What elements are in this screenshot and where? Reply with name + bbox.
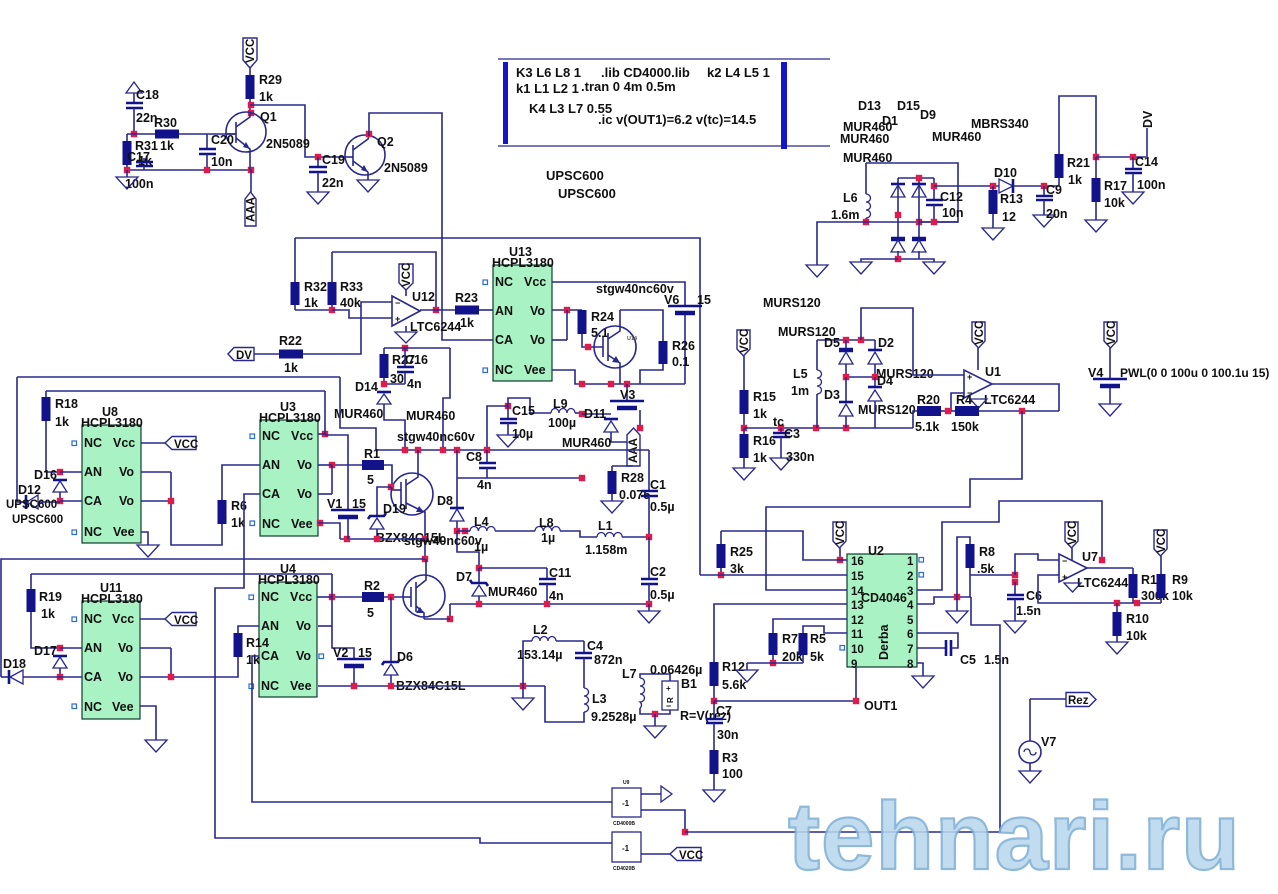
svg-text:stgw40nc60v: stgw40nc60v <box>397 430 475 444</box>
svg-text:AN: AN <box>495 304 513 318</box>
labels MUR460 cluster <box>843 120 892 134</box>
svg-text:1.158m: 1.158m <box>585 543 627 557</box>
capacitor C5 <box>917 633 1009 667</box>
resistor R22 <box>279 334 303 375</box>
svg-text:R13: R13 <box>1000 192 1023 206</box>
svg-text:Vee: Vee <box>112 700 134 714</box>
svg-text:D6: D6 <box>397 650 413 664</box>
svg-text:R24: R24 <box>591 310 614 324</box>
svg-text:VCC: VCC <box>679 850 703 862</box>
svg-text:MBRS340: MBRS340 <box>971 117 1029 131</box>
svg-text:10k: 10k <box>1172 589 1193 603</box>
resistor R27 <box>380 348 415 384</box>
resistor R16 <box>733 425 776 480</box>
svg-text:D16: D16 <box>34 468 57 482</box>
svg-text:MUR460: MUR460 <box>488 585 537 599</box>
svg-text:9.2528µ: 9.2528µ <box>591 710 636 724</box>
wire M1 emitter to midpoint <box>422 512 428 562</box>
capacitor C9 <box>1033 183 1068 227</box>
node M2 gate / D6 <box>388 594 394 600</box>
wire C6 node to U7 -in <box>1015 554 1059 575</box>
svg-text:R19: R19 <box>39 590 62 604</box>
wire U8 Vee to ground <box>137 532 159 557</box>
svg-text:D3: D3 <box>824 388 840 402</box>
diode D11 <box>562 407 627 450</box>
mid rail D4 label <box>843 374 893 388</box>
svg-text:1m: 1m <box>791 384 809 398</box>
label UPSC600 (2) <box>558 186 616 201</box>
svg-text:13: 13 <box>851 600 864 612</box>
MOSFET M2 <box>403 559 445 619</box>
svg-text:L9: L9 <box>553 397 568 411</box>
diode D15 (bridge UR) <box>897 99 926 197</box>
net flag VCC (U8) <box>141 437 198 452</box>
svg-text:HCPL3180: HCPL3180 <box>81 416 143 430</box>
svg-text:3k: 3k <box>730 562 744 576</box>
svg-text:D9: D9 <box>920 108 936 122</box>
svg-text:R9: R9 <box>1172 573 1188 587</box>
bridge rails <box>895 175 934 262</box>
resistor R32 <box>291 238 327 310</box>
svg-text:R20: R20 <box>917 393 940 407</box>
net flag AAA (output node) <box>627 428 640 466</box>
svg-text:NC: NC <box>495 275 513 289</box>
wire U11 Vee to ground <box>140 706 167 752</box>
resistor R9 <box>1157 573 1193 603</box>
svg-text:5.1k: 5.1k <box>915 420 939 434</box>
opto U4 HCPL3180 <box>249 562 324 697</box>
svg-text:8: 8 <box>907 659 914 671</box>
svg-text:R4: R4 <box>956 393 972 407</box>
svg-text:3: 3 <box>907 586 913 598</box>
svg-text:D19: D19 <box>383 502 406 516</box>
svg-text:R22: R22 <box>279 334 302 348</box>
capacitor C7 <box>706 701 739 750</box>
R7/R5 ground node <box>736 660 803 682</box>
svg-text:Vee: Vee <box>113 525 135 539</box>
svg-text:1k: 1k <box>55 415 69 429</box>
svg-text:AN: AN <box>84 465 102 479</box>
svg-text:C15: C15 <box>512 404 535 418</box>
svg-text:C2: C2 <box>650 565 666 579</box>
svg-text:Vcc: Vcc <box>113 436 135 450</box>
svg-text:1k: 1k <box>41 607 55 621</box>
svg-text:U12: U12 <box>412 290 435 304</box>
svg-text:R25: R25 <box>730 545 753 559</box>
diode D14 <box>334 380 405 450</box>
svg-text:NC: NC <box>84 525 102 539</box>
svg-text:−: − <box>395 298 400 308</box>
capacitor C11 <box>539 566 571 604</box>
svg-text:R26: R26 <box>672 339 695 353</box>
svg-text:LTC6244: LTC6244 <box>1077 576 1128 590</box>
resistor R20 <box>913 393 941 434</box>
svg-text:tc: tc <box>773 415 784 429</box>
svg-text:0.1: 0.1 <box>672 355 689 369</box>
svg-text:C16: C16 <box>405 353 428 367</box>
battery V3 <box>610 384 644 428</box>
inductor L9 <box>548 397 582 430</box>
diode D8 <box>406 409 464 531</box>
svg-text:D8: D8 <box>437 494 453 508</box>
svg-text:1k: 1k <box>246 653 260 667</box>
capacitor C14 <box>1122 155 1166 204</box>
svg-text:R32: R32 <box>304 280 327 294</box>
svg-text:R18: R18 <box>55 397 78 411</box>
svg-text:1k: 1k <box>231 516 245 530</box>
svg-text:-1: -1 <box>622 844 630 853</box>
resistor R17 <box>1085 154 1127 232</box>
resistor R18 <box>42 391 78 472</box>
ground under C19 <box>307 192 329 204</box>
wire U4 CA to logic gate1 <box>252 656 612 802</box>
capacitor C1 <box>641 450 675 536</box>
battery V1 <box>327 497 366 539</box>
svg-text:stgw40nc60v: stgw40nc60v <box>596 282 674 296</box>
Vee bus y=686 <box>318 683 545 689</box>
svg-text:Vo: Vo <box>118 641 133 655</box>
emitter return bus V1 y=539 <box>340 536 425 542</box>
HV rail y=391 <box>46 390 325 392</box>
svg-text:D13: D13 <box>858 99 881 113</box>
ground at C2 <box>638 604 660 623</box>
wire L6 bottom to bridge <box>866 219 922 225</box>
wire U7 output node <box>1087 557 1133 568</box>
diode D18 <box>1 657 82 684</box>
svg-text:D5: D5 <box>824 336 840 350</box>
transistor Q1 <box>226 110 310 152</box>
svg-text:+: + <box>666 684 671 693</box>
wire U13 Vcc to V6+ <box>552 282 685 306</box>
svg-text:Vo: Vo <box>530 304 545 318</box>
svg-text:AN: AN <box>84 641 102 655</box>
svg-text:4n: 4n <box>407 377 422 391</box>
diode D13 (bridge UL) <box>858 99 905 197</box>
opto U3 HCPL3180 <box>250 400 321 536</box>
node D7/C11 <box>476 565 547 571</box>
svg-text:Q2: Q2 <box>377 135 394 149</box>
svg-text:100n: 100n <box>125 177 154 191</box>
op-amp U1 <box>964 365 1035 407</box>
resistor R26 <box>640 339 695 384</box>
svg-text:−: − <box>1062 556 1067 566</box>
svg-text:100: 100 <box>722 767 743 781</box>
capacitor C17 <box>125 150 154 191</box>
svg-text:1.5n: 1.5n <box>984 653 1009 667</box>
svg-text:5k: 5k <box>810 650 824 664</box>
svg-text:MUR460: MUR460 <box>406 409 455 423</box>
svg-text:AAA: AAA <box>246 197 258 222</box>
svg-text:14: 14 <box>851 586 864 598</box>
net flag VCC above U1 <box>972 321 986 370</box>
svg-text:R16: R16 <box>753 434 776 448</box>
inductor L6 <box>831 163 871 222</box>
svg-text:NC: NC <box>84 612 102 626</box>
svg-text:L4: L4 <box>474 515 489 529</box>
svg-text:MUR460: MUR460 <box>562 436 611 450</box>
inductor L3 <box>545 686 636 724</box>
capacitor C6 <box>1004 582 1042 633</box>
svg-text:CD4000B: CD4000B <box>613 821 635 827</box>
diode D7 (zener) <box>456 568 537 604</box>
svg-text:.tran 0 4m 0.5m: .tran 0 4m 0.5m <box>581 79 676 94</box>
resistor R25 <box>717 531 841 576</box>
node V3/AAA <box>637 425 643 431</box>
net flag VCC (U2 pin16) <box>833 521 847 563</box>
opto U8 HCPL3180 <box>72 405 143 543</box>
resistor R19 <box>27 574 62 648</box>
node junction R29/Q1 <box>248 102 254 116</box>
wire Q2 collector to U13 CA <box>366 113 493 340</box>
ground bridge left <box>850 259 898 274</box>
svg-text:1k: 1k <box>284 361 298 375</box>
resistor R3 <box>703 750 743 802</box>
svg-text:D2: D2 <box>878 336 894 350</box>
capacitor C15 <box>497 398 551 447</box>
capacitor C12 <box>919 178 964 225</box>
drain bus y=450 <box>376 447 649 453</box>
svg-text:11: 11 <box>851 629 864 641</box>
svg-text:UPSC600: UPSC600 <box>6 499 57 511</box>
svg-text:15: 15 <box>358 646 372 660</box>
svg-text:MUR460: MUR460 <box>932 130 981 144</box>
svg-text:1k: 1k <box>460 316 474 330</box>
label MBRS340 <box>971 117 1029 131</box>
svg-text:VCC: VCC <box>174 439 198 451</box>
svg-text:U14: U14 <box>627 336 638 342</box>
svg-text:0.06426µ: 0.06426µ <box>650 663 702 677</box>
svg-text:150k: 150k <box>951 420 979 434</box>
opto U11 HCPL3180 <box>72 581 143 719</box>
svg-text:k1 L1 L2 1: k1 L1 L2 1 <box>516 81 579 96</box>
ground under Q2 <box>357 172 379 192</box>
svg-text:Vo: Vo <box>118 670 133 684</box>
svg-text:D7: D7 <box>456 570 472 584</box>
bsource B1 <box>650 663 702 711</box>
svg-text:+: + <box>1062 572 1067 582</box>
svg-text:NC: NC <box>262 429 280 443</box>
svg-text:D15: D15 <box>897 99 920 113</box>
svg-text:CA: CA <box>261 649 279 663</box>
label UPSC600 x2 <box>6 499 57 511</box>
wire U3 CA to logic <box>215 494 612 843</box>
wire U3 Vcc node <box>318 391 348 510</box>
diode D3 <box>824 377 853 428</box>
svg-text:C19: C19 <box>322 153 345 167</box>
svg-text:Vcc: Vcc <box>112 612 134 626</box>
svg-text:+: + <box>967 372 972 382</box>
wire U4 Vcc node <box>317 574 354 659</box>
wire M1 collector to bus <box>417 450 419 473</box>
svg-text:5: 5 <box>367 606 374 620</box>
wire L6 bottom left / ground <box>806 219 869 277</box>
svg-text:LTC6244: LTC6244 <box>984 393 1035 407</box>
resistor R31 <box>123 134 158 170</box>
node M1 gate <box>388 484 394 490</box>
battery V2 <box>333 646 372 686</box>
resistor R11 <box>1129 568 1169 603</box>
ground below U7 <box>1064 583 1081 592</box>
svg-text:D14: D14 <box>355 380 378 394</box>
svg-text:NC: NC <box>495 363 513 377</box>
svg-text:.ic v(OUT1)=6.2 v(tc)=14.5: .ic v(OUT1)=6.2 v(tc)=14.5 <box>598 112 756 127</box>
svg-text:R7: R7 <box>782 632 798 646</box>
svg-text:DV: DV <box>1141 110 1155 128</box>
svg-text:AN: AN <box>262 458 280 472</box>
HV rail y=377 <box>17 377 340 502</box>
svg-text:AN: AN <box>261 619 279 633</box>
svg-text:CA: CA <box>262 487 280 501</box>
svg-text:MUR460: MUR460 <box>843 151 892 165</box>
svg-text:-1: -1 <box>622 799 630 808</box>
ground under B1 <box>644 711 666 738</box>
resistor R7 <box>769 632 803 664</box>
wire U7 +in from R10/R11 node <box>1038 575 1161 606</box>
svg-text:2: 2 <box>907 571 913 583</box>
capacitor C19 <box>309 153 345 192</box>
svg-text:CA: CA <box>495 333 513 347</box>
svg-text:Vo: Vo <box>119 465 134 479</box>
gate-drive HV rail y=574 <box>31 573 332 575</box>
svg-text:R2: R2 <box>364 579 380 593</box>
inductor L1 <box>585 519 649 557</box>
node C6 (double junction) <box>1012 572 1018 585</box>
resistor R21 <box>1055 96 1097 187</box>
svg-text:D10: D10 <box>994 166 1017 180</box>
svg-text:40k: 40k <box>340 296 361 310</box>
svg-text:U7: U7 <box>1082 550 1098 564</box>
net flag VCC above U7 <box>1065 521 1079 560</box>
svg-text:100µ: 100µ <box>548 416 576 430</box>
wire pin11 to R5 <box>803 626 847 633</box>
svg-text:V4: V4 <box>1088 366 1103 380</box>
wire U11 Vo pins tied to R14 <box>140 648 174 680</box>
inductor L7 <box>622 667 670 714</box>
wire U8 Vo pins tied <box>141 472 174 504</box>
svg-text:NC: NC <box>262 517 280 531</box>
wire R29 to Q2 base <box>250 105 348 157</box>
resistor R12 <box>710 660 747 701</box>
wire R32 top rail to V6 loop <box>295 238 700 575</box>
svg-text:6: 6 <box>907 629 913 641</box>
svg-text:153.14µ: 153.14µ <box>517 648 562 662</box>
svg-text:L2: L2 <box>533 623 548 637</box>
diode D10 <box>994 166 1059 193</box>
svg-text:330n: 330n <box>786 450 815 464</box>
svg-text:L6: L6 <box>843 191 858 205</box>
diode D5 <box>824 336 853 377</box>
ground below U1 <box>970 399 987 408</box>
svg-text:CD4046: CD4046 <box>861 591 907 605</box>
wire Q1 emitter <box>250 151 251 192</box>
resistor R2 <box>332 579 404 620</box>
svg-text:30: 30 <box>390 372 404 386</box>
svg-text:R15: R15 <box>753 390 776 404</box>
net flag Rez <box>1030 693 1096 708</box>
svg-text:30n: 30n <box>717 728 739 742</box>
emitter bus y=384 <box>552 370 685 387</box>
gate U9 (CD4000B inverter) <box>612 780 641 827</box>
wire pin8 ground <box>912 663 934 688</box>
svg-text:Q1: Q1 <box>260 110 277 124</box>
net flag VCC (R15) <box>737 329 751 390</box>
svg-text:VCC: VCC <box>245 39 257 63</box>
svg-text:Vee: Vee <box>524 363 546 377</box>
svg-text:D11: D11 <box>584 407 606 421</box>
svg-text:R10: R10 <box>1126 612 1149 626</box>
svg-text:VCC: VCC <box>1067 521 1079 545</box>
label UPSC600 <box>546 168 604 183</box>
wire U1 -in from R20/R4 node <box>951 393 964 411</box>
svg-text:2N5089: 2N5089 <box>384 161 428 175</box>
svg-text:R5: R5 <box>810 632 826 646</box>
svg-text:1k: 1k <box>160 139 174 153</box>
diode D16 <box>34 468 82 501</box>
label BZX84C15L + stgw40nc60v (M2) <box>376 531 482 548</box>
label R=V(rez) <box>680 709 731 723</box>
ground on Vee bus (L2 node) <box>512 686 534 710</box>
wire D2 top to U1 +in <box>861 308 964 375</box>
svg-text:C5: C5 <box>960 653 976 667</box>
svg-text:10k: 10k <box>1126 629 1147 643</box>
svg-text:VCC: VCC <box>1156 529 1168 553</box>
source V7 <box>1019 699 1056 783</box>
wire U12 out to R23 <box>420 307 455 313</box>
resistor R8 <box>957 537 995 597</box>
svg-text:.5k: .5k <box>977 562 994 576</box>
svg-text:D17: D17 <box>34 644 57 658</box>
directive box frame <box>498 59 830 149</box>
wire C15 left leg <box>487 406 508 450</box>
svg-text:Vo: Vo <box>297 487 312 501</box>
svg-text:VCC: VCC <box>401 263 413 287</box>
svg-text:U1: U1 <box>985 365 1001 379</box>
svg-text:10n: 10n <box>211 155 233 169</box>
svg-text:7: 7 <box>907 644 913 656</box>
wire M2 emitter <box>424 618 450 620</box>
svg-text:Rez: Rez <box>1068 695 1089 707</box>
svg-text:C4: C4 <box>587 639 603 653</box>
svg-text:R30: R30 <box>154 116 177 130</box>
svg-text:Vee: Vee <box>290 679 312 693</box>
wire U3 Vee to bus <box>317 520 340 539</box>
diode D17 <box>34 644 82 677</box>
net flag VCC (U11) <box>140 613 198 628</box>
resistor R24 <box>578 310 614 350</box>
source bus y=604 <box>447 601 652 622</box>
wire U3 Vo pins to R1 <box>318 462 335 494</box>
svg-text:1µ: 1µ <box>541 531 555 545</box>
svg-text:VCC: VCC <box>174 615 198 627</box>
svg-text:OUT1: OUT1 <box>864 699 897 713</box>
svg-text:15: 15 <box>851 571 864 583</box>
svg-text:872n: 872n <box>594 653 623 667</box>
wire U1 output loop <box>992 384 1059 414</box>
svg-text:C14: C14 <box>1135 155 1158 169</box>
directive text .lib <box>516 65 770 127</box>
svg-text:C12: C12 <box>940 190 963 204</box>
svg-text:Vee: Vee <box>291 517 313 531</box>
capacitor C16 <box>384 348 428 391</box>
svg-text:L3: L3 <box>592 692 607 706</box>
labels MURS120 <box>763 296 821 310</box>
svg-text:4n: 4n <box>549 589 564 603</box>
svg-text:1: 1 <box>907 556 914 568</box>
svg-text:0.5µ: 0.5µ <box>650 500 675 514</box>
watermark tehnari.ru <box>788 783 1241 890</box>
battery V6 <box>664 293 711 384</box>
svg-text:10n: 10n <box>942 206 964 220</box>
